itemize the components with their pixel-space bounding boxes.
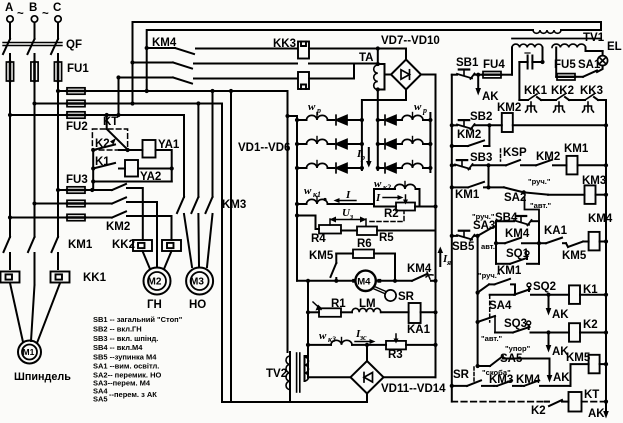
thermal KK2 heater 1: [133, 240, 152, 251]
relay KA1: [407, 303, 438, 336]
svg-text:SA4: SA4: [489, 300, 512, 312]
matrix row2 left: [295, 139, 364, 149]
transformer TV2: [266, 352, 309, 402]
button SB4: [495, 212, 539, 225]
label wp left: [308, 101, 321, 115]
svg-text:KM2: KM2: [457, 129, 481, 141]
wire YA1 right: [156, 150, 172, 182]
wire bridge2 right: [384, 376, 436, 378]
contact KM4 bottom: [516, 374, 571, 386]
svg-text:M2: M2: [148, 277, 162, 288]
svg-text:SB3 -- вкл. шпінд.: SB3 -- вкл. шпінд.: [93, 334, 158, 343]
wire sec1 right lead: [542, 48, 544, 63]
wire FU3 row2: [35, 203, 113, 205]
winding polarity ticks wp: [317, 113, 413, 167]
lamp EL: [597, 41, 622, 72]
coil KM2: [497, 102, 608, 132]
node KM4-B row2: [130, 101, 134, 105]
rheostat R5: [341, 219, 436, 244]
matrix row3 left: [295, 163, 364, 173]
svg-text:FU4: FU4: [483, 59, 505, 71]
wire KM4-A drop: [146, 48, 148, 91]
wire rowB to TA: [309, 63, 378, 65]
contact KM2-1 power: [112, 184, 143, 240]
svg-text:KSP: KSP: [503, 147, 527, 159]
svg-text:TA: TA: [359, 52, 373, 64]
svg-text:M1: M1: [23, 347, 35, 357]
node A row3: [8, 113, 12, 117]
svg-text:SB3: SB3: [470, 152, 492, 164]
wire bridge bottom to Ip: [362, 90, 406, 171]
svg-text:KM1: KM1: [497, 265, 522, 277]
fuse FU1 phase A: [6, 62, 13, 81]
svg-text:AK: AK: [552, 309, 569, 321]
matrix row1 left: node winding diode: [295, 115, 364, 125]
wire phase B drop: [34, 23, 36, 39]
wire KM3 feed 3: [183, 115, 185, 197]
transformer TV1 core: [512, 38, 600, 40]
svg-text:FU5: FU5: [554, 59, 576, 71]
fuse FU2-1: [67, 88, 85, 94]
svg-text:KT: KT: [103, 116, 118, 128]
contact KM3-2: [191, 197, 199, 266]
node C row1: [56, 89, 60, 93]
wire supply drop row1: [229, 89, 233, 402]
wire FU3 row3: [10, 217, 112, 219]
svg-text:FU2: FU2: [66, 121, 88, 133]
wire row1 FU2: [58, 90, 288, 92]
svg-text:KM1: KM1: [455, 189, 480, 201]
wire SA2 avt drop: [525, 197, 540, 221]
thermal KK3 heater 2: [298, 72, 309, 89]
svg-text:M4: M4: [357, 276, 371, 287]
wire bridge2 left: [308, 376, 351, 378]
wire YA return: [93, 181, 172, 183]
svg-text:p: p: [422, 106, 427, 115]
svg-text:AK: AK: [588, 408, 605, 420]
svg-text:KK2: KK2: [112, 239, 135, 251]
node lower bus top: [306, 279, 310, 283]
winding wk2 loop: [374, 182, 420, 207]
limit switch SQ1: [496, 221, 539, 264]
svg-text:VD11--VD14: VD11--VD14: [381, 383, 446, 395]
node C FU3 row1: [56, 188, 60, 192]
thermal KK1 heater 1: [1, 272, 20, 283]
label U3: [342, 207, 353, 221]
svg-text:w: w: [308, 101, 316, 113]
svg-text:SA5: SA5: [93, 395, 108, 404]
resistor R6: [336, 238, 395, 281]
label I arrow wk2: [375, 192, 404, 204]
contact KA1: [539, 225, 568, 243]
label I3c arrow: [355, 328, 376, 344]
electromagnet YA2: [125, 160, 161, 183]
terminal B: [29, 2, 38, 22]
svg-text:R2: R2: [384, 208, 399, 220]
fuse FU2-3: [67, 112, 85, 118]
wire matrix left bus: [288, 116, 298, 281]
svg-text:AK: AK: [553, 372, 570, 384]
contact KM1-1 power: [4, 237, 11, 269]
node SB1-FU4: [476, 73, 480, 77]
wire rowC rise: [309, 64, 354, 79]
winding wk1: [295, 197, 374, 207]
svg-text:"упор": "упор": [505, 344, 531, 353]
contact KM1 selfhold: [450, 165, 504, 201]
svg-text:SB2 -- вкл.ГН: SB2 -- вкл.ГН: [93, 325, 142, 334]
contact KM4-B: [130, 60, 297, 68]
contact KM4 armature: [395, 263, 438, 283]
switch SA5: [476, 344, 550, 368]
wire C below QF: [57, 54, 59, 62]
wire top bus line2: [147, 30, 601, 48]
wire M4 right + node: [376, 279, 397, 283]
node supply matrix: [285, 114, 289, 118]
wire to KM5 coil: [571, 364, 589, 386]
node B FU3 row2: [32, 201, 36, 205]
svg-text:QF: QF: [66, 39, 82, 51]
svg-text:авт.: авт.: [481, 242, 495, 251]
node row3 KT tap: [105, 113, 109, 117]
coil K2: [569, 319, 608, 342]
label Iя arrow: [438, 247, 452, 268]
wire K2-K1 vertical: [92, 150, 94, 190]
fuse FU5: [554, 59, 583, 80]
bus C vertical: [57, 81, 59, 237]
svg-text:SB1 -- загальний "Стоп": SB1 -- загальний "Стоп": [93, 315, 183, 324]
arrow AK row SQ2: [546, 295, 570, 321]
node FU3 K tap: [90, 188, 94, 192]
matrix row1 right: diode winding node: [376, 115, 433, 125]
button SB3: [450, 152, 506, 170]
winding wk3: [306, 338, 369, 348]
inductor LM: [341, 298, 409, 312]
wire bridge2 top: [366, 345, 368, 361]
wire sec1 left lead: [511, 48, 513, 75]
node A FU3 row3: [8, 215, 12, 219]
svg-text:M3: M3: [190, 277, 204, 288]
coil KM5: [566, 352, 608, 373]
label wk3: [319, 330, 336, 344]
wire M1 leads: [10, 283, 60, 343]
rheostat R1: [306, 298, 346, 317]
contact SR: [450, 367, 494, 388]
wire FU3 row1: [58, 189, 112, 191]
contact K2 bottom: [531, 400, 569, 417]
tacho SR: [373, 287, 415, 304]
svg-text:KM4: KM4: [588, 213, 613, 225]
limit switch SQ2: [490, 281, 569, 297]
wire armature right bus: [435, 75, 437, 378]
wire supply drop row2: [221, 104, 223, 403]
thermal KK3 heater 1: [298, 42, 309, 59]
wire SA45 bus: [477, 322, 479, 366]
motor M2: [144, 268, 171, 312]
contact KM4 aux: [494, 221, 541, 264]
svg-text:SB4 -- вкл.М4: SB4 -- вкл.М4: [93, 343, 143, 352]
svg-text:SA3: SA3: [473, 220, 495, 232]
wire cap to KK chain: [518, 62, 520, 100]
wire top bus line1: [133, 22, 602, 63]
svg-text:SR: SR: [398, 291, 415, 303]
wire phase C drop: [57, 23, 59, 39]
wire SA34 bus: [477, 236, 479, 322]
svg-text:SB1: SB1: [456, 57, 479, 69]
wire KM4-C drop: [118, 78, 120, 116]
label wk2: [374, 178, 391, 192]
svg-text:KM5: KM5: [566, 352, 591, 364]
wire KT feed: [106, 115, 108, 129]
capacitor C: [519, 53, 544, 69]
transformer TA: [359, 46, 380, 91]
node B row2: [32, 101, 36, 105]
switch SA2: [504, 177, 585, 210]
wire sec2 left lead: [555, 48, 557, 77]
rheostat R2: [374, 195, 438, 220]
motor M1: [14, 341, 71, 384]
contact KSP: [501, 147, 537, 165]
svg-text:к2: к2: [383, 183, 391, 192]
wire dashed U3-R2: [370, 212, 404, 222]
svg-text:R6: R6: [357, 238, 372, 250]
contact KM5 armature: [309, 250, 338, 283]
svg-text:w: w: [304, 185, 312, 197]
wire KM3 feed 1: [210, 89, 214, 197]
switch SA3: [472, 212, 496, 251]
svg-text:"авт.": "авт.": [481, 334, 503, 343]
svg-text:KA1: KA1: [544, 225, 568, 237]
contact KM3-1: [177, 197, 192, 267]
contact KM1-3 power: [52, 237, 93, 269]
svg-text:A: A: [5, 2, 13, 14]
node K return: [91, 179, 95, 183]
fuse FU1 phase B: [31, 62, 38, 81]
fuse FU3-3: [67, 214, 85, 220]
contact KM5 aux: [562, 242, 589, 263]
svg-text:--перем. з АК: --перем. з АК: [109, 390, 157, 399]
svg-text:SB5: SB5: [452, 241, 475, 253]
svg-text:C: C: [53, 2, 61, 14]
svg-text:FU1: FU1: [67, 63, 89, 75]
svg-text:VD1--VD6: VD1--VD6: [238, 142, 290, 154]
fuse FU1 phase C: [54, 62, 61, 81]
node YA join: [170, 166, 174, 170]
arrow U3 span: [330, 217, 367, 223]
svg-text:SR: SR: [453, 369, 470, 381]
svg-text:"руч.": "руч.": [528, 177, 551, 186]
fuse FU3-2: [67, 200, 85, 206]
coil KM3: [582, 175, 608, 204]
wire TV2 secondary leads: [305, 356, 309, 381]
contact K1: [91, 156, 125, 171]
wire supply to TV2 top: [287, 91, 289, 352]
rectifier VD11-VD14 bridge: [351, 361, 384, 394]
wire TV2 bottom rail: [222, 401, 367, 403]
wire ladder right bus: [605, 100, 607, 402]
svg-text:зс: зс: [359, 333, 367, 342]
arrow AK row SQ3: [546, 333, 570, 359]
fuse FU4: [478, 59, 512, 78]
wire B below QF: [34, 54, 36, 62]
contact KM1-2 power: [28, 237, 35, 285]
wire KM4-B drop: [132, 63, 134, 104]
label wk1: [304, 185, 321, 199]
svg-text:w: w: [319, 330, 327, 342]
contact KM4-C: [116, 75, 297, 83]
wire TA line into matrix: [377, 90, 379, 171]
svg-text:~: ~: [42, 8, 49, 20]
coil KT: [569, 389, 609, 412]
svg-text:KM5: KM5: [309, 250, 334, 262]
svg-text:KM5: KM5: [562, 250, 587, 262]
wire A below QF: [9, 54, 11, 62]
svg-text:KM1: KM1: [564, 143, 589, 155]
svg-text:~: ~: [17, 8, 24, 20]
svg-text:KK3: KK3: [273, 38, 296, 50]
matrix row3 right: [376, 163, 433, 173]
svg-text:ГН: ГН: [147, 299, 162, 311]
wire bridge left leads: [378, 64, 391, 90]
svg-text:I: I: [345, 189, 351, 201]
transformer TV1 secondary 2: [552, 44, 586, 47]
coil K1: [569, 284, 608, 304]
button SB2 + KM2 coil row: [450, 111, 502, 130]
svg-text:KK1: KK1: [83, 272, 107, 284]
switch SA4: [476, 295, 512, 324]
label wp right: [414, 101, 427, 115]
svg-text:p: p: [360, 153, 365, 162]
svg-text:KM1: KM1: [68, 239, 93, 251]
contact KM2 selfhold: [450, 125, 490, 148]
svg-text:KA1: KA1: [407, 324, 431, 336]
coil KM1: [564, 143, 608, 174]
wire row3 FU2: [10, 114, 184, 116]
rectifier VD7-VD10 bridge: [391, 60, 421, 90]
thermal KK1 heater 2: [51, 272, 70, 283]
svg-text:SB2: SB2: [470, 111, 492, 123]
wire row2 FU2: [35, 103, 223, 105]
svg-text:KT: KT: [584, 389, 599, 401]
wire KM3 feed 2: [196, 101, 200, 197]
label I arrow wk1: [334, 189, 357, 203]
svg-text:R4: R4: [311, 233, 326, 245]
wire bridge top lead: [405, 49, 407, 60]
svg-text:R3: R3: [388, 349, 403, 361]
svg-text:SA1: SA1: [578, 59, 601, 71]
electromagnet YA1: [143, 139, 180, 158]
wire sec2 right lead: [586, 48, 603, 52]
legend text: [93, 315, 183, 404]
svg-text:TV2: TV2: [266, 368, 287, 380]
arrow AK bottom right: [588, 402, 609, 420]
breaker QF: [3, 39, 82, 54]
contact KM2 row3: [536, 151, 567, 165]
wire bridge right lead: [421, 74, 436, 76]
contact KM3-3: [206, 197, 247, 267]
wire dashed AK row: [452, 386, 545, 402]
svg-text:EL: EL: [607, 41, 622, 53]
svg-text:w: w: [414, 101, 422, 113]
svg-text:R5: R5: [379, 232, 394, 244]
contact KM2-3 power: [106, 212, 172, 241]
contact KT time-delay in dashed box: [92, 129, 127, 150]
contact KM1 ruch: [476, 265, 522, 295]
terminal C: [53, 2, 61, 22]
button SB1: [452, 57, 479, 79]
svg-text:B: B: [29, 2, 37, 14]
svg-text:I: I: [375, 192, 381, 204]
wire bridge2 bottom: [366, 394, 368, 403]
bus A vertical: [9, 81, 11, 237]
button SB5: [450, 231, 480, 253]
wire rowA to TA: [309, 48, 406, 50]
label Ip arrow: [356, 148, 372, 168]
svg-text:FU3: FU3: [66, 174, 88, 186]
terminal A: [5, 2, 13, 22]
thermal KK2 heater 2: [162, 240, 181, 251]
arrow AK SA5 row: [547, 359, 571, 385]
wire YA2 right: [138, 168, 172, 170]
svg-text:SA1 --вим. освітл.: SA1 --вим. освітл.: [93, 362, 159, 371]
wire phase A drop: [9, 23, 11, 39]
wire matrix right bus: [429, 113, 431, 172]
contact K2: [91, 138, 142, 152]
wire ladder left bus: [451, 75, 453, 386]
svg-text:VD7--VD10: VD7--VD10: [381, 35, 440, 47]
svg-text:Шпиндель: Шпиндель: [14, 371, 71, 383]
svg-text:K2: K2: [531, 405, 546, 417]
motor M3: [186, 268, 213, 312]
fuse FU2-2: [67, 100, 85, 106]
svg-text:НО: НО: [189, 299, 206, 311]
transformer TV1 secondary 1: [512, 44, 542, 47]
svg-text:я: я: [446, 258, 451, 267]
wire M4 row left: [297, 280, 355, 282]
thermal contacts KK1 KK2 KK3: [519, 85, 606, 112]
wire M2 leads: [143, 251, 172, 269]
switch SA1: [578, 59, 601, 77]
bus B vertical: [34, 81, 36, 237]
rheostat R3: [367, 334, 438, 361]
svg-text:KM3: KM3: [222, 199, 246, 211]
svg-text:K2: K2: [583, 319, 598, 331]
svg-text:SB5 --зупинка М4: SB5 --зупинка М4: [93, 353, 157, 362]
coil KM4: [588, 213, 613, 250]
contact KM4-A: [145, 37, 297, 54]
contact KM3 bottom: [489, 374, 521, 386]
arrow AK row1: [475, 75, 499, 103]
rheostat R4: [295, 213, 341, 245]
svg-text:SQ2: SQ2: [533, 281, 556, 293]
transformer TV1 primary: [533, 30, 561, 33]
svg-text:KM2: KM2: [106, 221, 130, 233]
wire lower left bus: [307, 281, 309, 377]
motor M4: [352, 271, 381, 291]
node KM4-C row3: [116, 113, 120, 117]
matrix row2 right: [376, 139, 433, 149]
contact KM2-2 power: [112, 198, 157, 254]
limit switch SQ3: [495, 316, 569, 335]
fuse FU3-1: [67, 187, 85, 193]
node KM4-A row1: [145, 89, 149, 93]
